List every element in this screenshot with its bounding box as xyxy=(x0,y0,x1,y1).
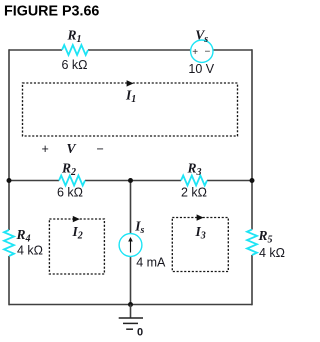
svg-text:+: + xyxy=(192,47,198,58)
resistor R3 xyxy=(181,161,207,200)
resistor R4 xyxy=(4,227,43,258)
svg-text:6 kΩ: 6 kΩ xyxy=(62,58,88,72)
svg-text:10 V: 10 V xyxy=(188,62,214,76)
wire middle-left segment xyxy=(9,180,59,182)
voltage source Vs xyxy=(188,28,214,77)
svg-text:+: + xyxy=(42,142,49,156)
wire middle-right segment xyxy=(207,180,252,182)
wire middle-center segment xyxy=(85,180,181,182)
wire top-middle segment xyxy=(88,49,191,51)
wire left lower xyxy=(8,256,10,305)
wire current-source branch upper xyxy=(130,181,132,234)
wire left upper xyxy=(8,49,10,230)
node annotation + V - xyxy=(42,141,104,156)
mesh loop I3 (dashed) xyxy=(172,214,228,271)
ground xyxy=(119,305,143,339)
resistor R5 xyxy=(247,228,285,260)
wire bottom xyxy=(9,304,252,306)
mesh loop I1 (dashed) xyxy=(23,80,238,136)
wire right upper xyxy=(251,49,253,229)
wire right lower xyxy=(251,255,253,305)
mesh loop I2 (dashed) xyxy=(49,216,104,274)
node dot ground xyxy=(128,302,133,307)
svg-text:4 mA: 4 mA xyxy=(136,256,166,270)
svg-text:0: 0 xyxy=(137,327,143,339)
svg-text:V: V xyxy=(67,141,77,156)
svg-text:4 kΩ: 4 kΩ xyxy=(17,244,43,258)
svg-text:4 kΩ: 4 kΩ xyxy=(259,246,285,260)
svg-text:−: − xyxy=(97,142,104,156)
resistor R2 xyxy=(57,161,85,200)
node dot left xyxy=(7,178,12,183)
node dot center xyxy=(128,178,133,183)
wire top-left segment xyxy=(9,49,62,51)
wire top-right segment xyxy=(213,49,252,51)
wire current-source branch lower xyxy=(130,256,132,304)
current source Is xyxy=(119,219,166,270)
node dot right xyxy=(250,178,255,183)
svg-text:2 kΩ: 2 kΩ xyxy=(181,186,207,200)
svg-text:FIGURE P3.66: FIGURE P3.66 xyxy=(4,4,99,20)
svg-text:6 kΩ: 6 kΩ xyxy=(57,186,83,200)
svg-text:−: − xyxy=(205,47,211,58)
resistor R1 xyxy=(62,28,89,73)
